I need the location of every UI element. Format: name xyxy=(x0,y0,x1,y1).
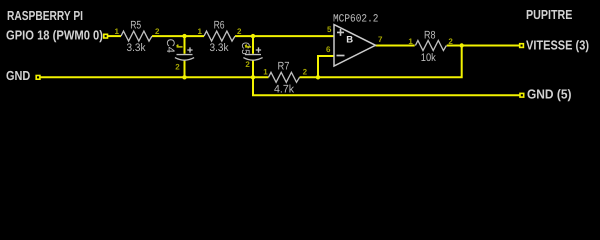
svg-text:C5: C5 xyxy=(239,42,251,55)
wire GND rail left to R7 xyxy=(40,76,269,78)
svg-text:10k: 10k xyxy=(421,52,436,64)
svg-text:6: 6 xyxy=(326,45,331,54)
svg-text:4.7k: 4.7k xyxy=(274,84,294,96)
svg-text:GPIO 18 (PWM0 0): GPIO 18 (PWM0 0) xyxy=(6,27,103,42)
svg-text:PUPITRE: PUPITRE xyxy=(526,7,573,22)
wire C4 top lead xyxy=(184,36,186,54)
svg-text:1: 1 xyxy=(263,68,268,77)
wire GPIO to R5 xyxy=(107,35,121,37)
svg-text:1: 1 xyxy=(198,27,203,36)
net stub marker GND (5) xyxy=(520,93,524,97)
svg-text:2: 2 xyxy=(175,63,180,72)
svg-text:2: 2 xyxy=(237,27,242,36)
resistor R5 xyxy=(121,20,152,55)
svg-text:VITESSE (3): VITESSE (3) xyxy=(526,38,589,53)
svg-text:MCP602.2: MCP602.2 xyxy=(333,14,379,26)
svg-text:2: 2 xyxy=(155,27,160,36)
wire R8 to VITESSE xyxy=(447,45,520,47)
svg-text:R8: R8 xyxy=(424,30,436,42)
svg-text:C4: C4 xyxy=(164,39,176,53)
svg-text:7: 7 xyxy=(378,35,383,44)
svg-text:2: 2 xyxy=(448,37,453,46)
svg-text:3.3k: 3.3k xyxy=(127,42,146,54)
svg-text:3.3k: 3.3k xyxy=(210,42,229,54)
junction feedback to pin 6 riser xyxy=(316,75,320,79)
wire C4 bottom lead xyxy=(184,60,186,78)
junction C4 to GND rail xyxy=(182,75,186,79)
svg-text:R5: R5 xyxy=(130,20,141,32)
op-amp U1 MCP602.2 xyxy=(333,14,379,66)
junction at R5/R6/C4 node xyxy=(182,34,186,38)
net stub marker GND left xyxy=(36,76,40,80)
svg-text:1: 1 xyxy=(115,27,120,36)
svg-text:R7: R7 xyxy=(278,61,290,73)
svg-text:2: 2 xyxy=(245,60,250,69)
wire C5 bottom lead xyxy=(252,60,254,78)
svg-text:RASPBERRY PI: RASPBERRY PI xyxy=(7,8,83,23)
pin 1 of C4 xyxy=(177,45,183,47)
wire GND riser to GND (5) rail xyxy=(253,77,520,95)
svg-text:2: 2 xyxy=(303,68,308,77)
wire R6 to op-amp pin 5 xyxy=(235,35,334,37)
svg-text:B: B xyxy=(346,34,353,45)
wire R7 to output riser xyxy=(300,46,462,78)
junction C5 to GND rail xyxy=(251,75,255,79)
svg-text:GND (5): GND (5) xyxy=(527,87,572,102)
net stub marker VITESSE xyxy=(520,44,524,48)
wire R5 to R6 xyxy=(152,35,204,37)
junction R8 output tap xyxy=(460,43,464,47)
svg-text:GND: GND xyxy=(6,68,30,83)
wire inverting input riser xyxy=(318,56,334,77)
pin 1 of C5 xyxy=(245,45,251,47)
capacitor C5 xyxy=(239,42,262,60)
svg-text:1: 1 xyxy=(408,37,413,46)
svg-text:5: 5 xyxy=(327,25,332,34)
capacitor C4 xyxy=(164,39,194,61)
wire op-amp output to R8 xyxy=(376,45,415,47)
resistor R7 xyxy=(269,61,300,96)
junction at R6/C5/op-amp node xyxy=(251,34,255,38)
svg-text:R6: R6 xyxy=(214,20,225,32)
resistor R6 xyxy=(204,20,235,55)
wire C5 top lead xyxy=(252,36,254,54)
net stub marker GPIO xyxy=(104,34,108,38)
resistor R8 xyxy=(415,30,446,65)
